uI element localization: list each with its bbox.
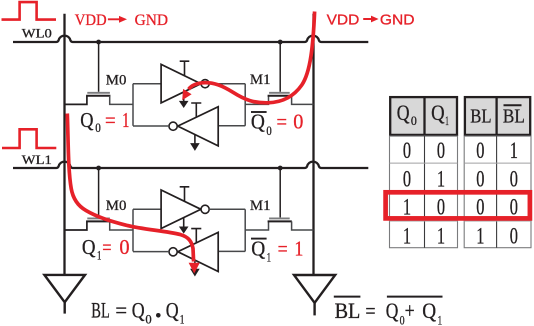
svg-text:Q: Q: [251, 237, 265, 261]
transistor M1 channel (cell 1): [268, 220, 292, 222]
svg-text:Q: Q: [251, 109, 265, 133]
svg-text:1: 1: [438, 313, 443, 326]
VDD tee U1: [180, 61, 190, 75]
word line WL0: [13, 36, 368, 42]
svg-text:+: +: [405, 298, 415, 323]
svg-text:BL: BL: [470, 106, 491, 128]
svg-text:0: 0: [510, 167, 518, 192]
transistor M1 drain leg to BLbar: [292, 96, 314, 105]
red highlight box row 3: [386, 192, 530, 218]
red discharge arrow cell 1: [67, 114, 200, 274]
svg-text:=: =: [277, 109, 288, 133]
junction dot WL1 / M1 gate: [278, 166, 283, 171]
word line WL1: [13, 162, 368, 168]
transistor M0 drain leg to Q0: [110, 96, 133, 105]
svg-text:VDD: VDD: [75, 12, 107, 29]
op-amp inverter U4 triangle: [178, 232, 219, 271]
wire inverter U4 input: [218, 250, 245, 252]
svg-text:Q: Q: [80, 108, 94, 132]
svg-text:1: 1: [180, 311, 185, 326]
node Q0 vertical wire: [132, 84, 134, 126]
waveform pulse on WL1: [2, 129, 56, 148]
transistor M1 gate bar: [269, 92, 290, 94]
svg-text:Q: Q: [82, 235, 96, 259]
svg-text:=: =: [278, 237, 288, 261]
driver triangle on BLbar: [294, 275, 335, 315]
truth table body grid right: [464, 136, 531, 248]
svg-text:Q: Q: [166, 298, 179, 323]
transistor M1 drain leg to BLbar (cell 1): [292, 221, 314, 230]
red discharge arrow cell 0: [182, 12, 314, 103]
svg-text:0: 0: [119, 235, 129, 259]
svg-text:WL0: WL0: [22, 26, 52, 40]
svg-text:1: 1: [403, 195, 411, 220]
svg-text:M1: M1: [250, 72, 271, 88]
label VDD to GND (right, red sans): [327, 12, 415, 29]
driver triangle on BL: [44, 275, 85, 314]
svg-text:0: 0: [437, 195, 445, 220]
wire inverter U3 input: [133, 208, 161, 210]
svg-text:1: 1: [97, 249, 101, 263]
transistor M1 channel: [268, 95, 292, 97]
svg-text:Q: Q: [132, 298, 145, 323]
svg-text:=: =: [365, 298, 375, 323]
ground arrow U4: [194, 260, 196, 269]
transistor M0 drain leg to Q1 (cell 1): [110, 221, 133, 230]
wire inverter U1 input: [133, 83, 161, 85]
svg-text:0: 0: [476, 195, 484, 220]
truth table row 1 values 0 0 0 1: [403, 138, 518, 163]
ground arrow U1: [183, 92, 185, 101]
svg-text:1: 1: [267, 251, 271, 265]
formula BL = Q0 . Q1: [91, 298, 184, 326]
svg-text:=: =: [105, 108, 116, 132]
svg-text:M1: M1: [250, 198, 271, 214]
svg-text:0: 0: [145, 311, 151, 326]
svg-text:0: 0: [293, 109, 303, 133]
svg-text:0: 0: [510, 224, 518, 249]
svg-text:0: 0: [403, 167, 411, 192]
svg-text:BL: BL: [91, 298, 110, 323]
wire U1 output to Q0bar: [209, 83, 245, 85]
label Q0bar = 0: [251, 109, 304, 138]
bit line BLbar: [312, 14, 314, 275]
svg-text:1: 1: [445, 113, 449, 128]
svg-text:Q: Q: [397, 100, 410, 125]
VDD tee U3: [180, 187, 190, 201]
svg-text:WL1: WL1: [22, 153, 52, 167]
transistor M0 gate stub (cell 1): [98, 168, 100, 217]
junction dot WL0 / M1 gate: [278, 40, 283, 45]
transistor M0 source leg to BL: [65, 96, 87, 105]
transistor M0 channel: [86, 95, 110, 97]
truth table header Q0 Q1: [390, 96, 457, 136]
svg-text:1: 1: [294, 237, 303, 261]
transistor M1 gate stub (cell 1): [279, 168, 281, 217]
svg-text:BL: BL: [503, 106, 525, 128]
label Q0 = 1: [80, 108, 129, 135]
truth table body grid left: [390, 136, 458, 248]
VDD tee U2: [191, 103, 201, 117]
wire U2 output to Q0: [133, 125, 169, 127]
transistor M0 gate bar: [87, 92, 110, 94]
svg-text:0: 0: [437, 138, 445, 163]
svg-text:1: 1: [403, 224, 411, 249]
wire U4 output to Q1: [133, 251, 169, 253]
ground arrow U2: [194, 135, 196, 144]
svg-text:1: 1: [476, 224, 484, 249]
transistor M0 gate bar (cell 1): [87, 217, 110, 219]
svg-text:GND: GND: [135, 12, 168, 29]
wire inverter U2 input: [218, 125, 245, 127]
transistor M0 gate stub: [98, 42, 100, 92]
svg-text:1: 1: [122, 108, 129, 132]
svg-text:=: =: [115, 298, 127, 323]
bubble U4 output: [169, 248, 177, 256]
node Q1bar vertical wire: [244, 209, 246, 251]
ground arrow U3: [183, 218, 185, 227]
svg-text:GND: GND: [380, 12, 415, 29]
truth table row 4 values 1 1 1 0: [403, 224, 518, 249]
transistor M1 gate stub: [279, 42, 281, 92]
svg-text:0: 0: [95, 121, 101, 135]
svg-text:VDD: VDD: [327, 12, 360, 29]
truth table row 3 values 1 0 0 0: [403, 195, 518, 220]
transistor M0 channel (cell 1): [86, 220, 110, 222]
svg-text:M0: M0: [106, 73, 127, 89]
svg-text:Q: Q: [431, 100, 445, 125]
op-amp inverter U3 triangle: [161, 190, 201, 229]
label Q1 = 0: [82, 235, 130, 263]
svg-text:0: 0: [266, 124, 271, 138]
op-amp inverter U1 triangle: [161, 64, 201, 103]
wire Q1bar to M1 (cell 1): [245, 221, 268, 230]
truth table header BL BLbar: [465, 96, 530, 136]
junction dot WL0 / M0 gate: [96, 40, 101, 45]
svg-text:1: 1: [437, 167, 445, 192]
svg-text:0: 0: [476, 167, 484, 192]
wire Q0bar to M1: [245, 96, 268, 105]
transistor M0 source leg to BL (cell 1): [65, 221, 87, 230]
VDD tee U4: [191, 229, 201, 243]
wire U3 output to Q1bar: [209, 208, 245, 210]
label Q1bar = 1: [251, 237, 303, 265]
svg-text:0: 0: [510, 195, 518, 220]
bubble U3 output: [201, 205, 209, 213]
svg-text:1: 1: [437, 224, 445, 249]
svg-text:0: 0: [411, 113, 417, 128]
junction dot WL1 / M0 gate: [96, 166, 101, 171]
svg-text:=: =: [102, 235, 111, 259]
node Q1 vertical wire: [132, 209, 134, 251]
svg-text:0: 0: [403, 138, 411, 163]
svg-text:Q: Q: [386, 298, 399, 323]
svg-text:Q: Q: [422, 298, 436, 323]
svg-text:0: 0: [476, 138, 484, 163]
waveform pulse on WL0: [2, 2, 57, 20]
label VDD to GND (left, red serif): [75, 12, 168, 29]
bubble U2 output: [169, 122, 177, 130]
formula BLbar = Q0bar + Q1bar: [334, 297, 443, 326]
bit line BL: [63, 14, 65, 275]
svg-text:1: 1: [510, 138, 518, 163]
truth table row 2 values 0 1 0 0: [403, 167, 518, 192]
bubble U1 output: [201, 80, 209, 88]
transistor M1 gate bar (cell 1): [269, 217, 290, 219]
svg-text:M0: M0: [106, 198, 127, 214]
node Q0bar vertical wire: [244, 84, 246, 126]
op-amp inverter U2 triangle: [178, 107, 219, 146]
svg-text:BL: BL: [335, 298, 361, 323]
